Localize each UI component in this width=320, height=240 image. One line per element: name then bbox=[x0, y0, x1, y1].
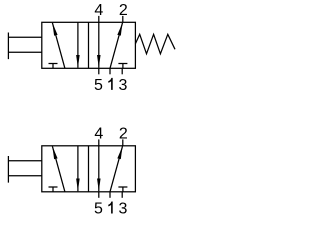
valve V1 port 5 stub bbox=[98, 68, 100, 74]
valve V2 plunger actuator bbox=[8, 156, 41, 183]
valve V1 port 3 stub bbox=[121, 68, 123, 74]
svg-text:3: 3 bbox=[119, 77, 128, 94]
valve V2 port 3 stub bbox=[121, 192, 123, 198]
valve V2 port 5 stub bbox=[98, 192, 100, 198]
valve V1 right-position blocked port 3 T-symbol bbox=[118, 64, 127, 69]
valve V1 left-position arrow 1 to 4 bbox=[52, 23, 65, 69]
valve V1 port 1 stub bbox=[109, 68, 111, 74]
valve V2 port 1 label bbox=[108, 202, 112, 214]
valve V2 right-position arrow 4 to 5 bbox=[98, 146, 100, 192]
svg-text:2: 2 bbox=[119, 125, 128, 142]
svg-text:4: 4 bbox=[94, 2, 103, 19]
valve V2 position divider bbox=[88, 146, 90, 192]
valve V1 port 2 stub bbox=[122, 16, 124, 22]
valve V1 body frame bbox=[42, 22, 136, 68]
valve V2 port 2 stub bbox=[122, 139, 124, 145]
valve V1 (5/2-way, top) bbox=[8, 16, 175, 74]
valve V1 plunger actuator bbox=[8, 33, 41, 60]
valve V2 left-position arrow 1 to 4 bbox=[52, 146, 65, 192]
valve V1 port 1 label bbox=[108, 78, 112, 90]
valve V1 position divider bbox=[88, 22, 90, 68]
valve V2 body frame bbox=[42, 146, 136, 192]
valve V1 left-position arrow 2 to 3 bbox=[77, 22, 79, 68]
valve V1 return spring bbox=[135, 34, 175, 54]
valve V2 left-position arrow 2 to 3 bbox=[77, 146, 79, 192]
svg-text:3: 3 bbox=[119, 201, 128, 215]
valve V2 right-position blocked port 3 T-symbol bbox=[118, 187, 127, 192]
valve V2 port 1 stub bbox=[109, 192, 111, 198]
valve V1 left-position blocked port 5 T-symbol bbox=[49, 64, 58, 69]
svg-text:5: 5 bbox=[94, 201, 103, 215]
svg-text:4: 4 bbox=[94, 125, 103, 142]
valve V1 right-position arrow 4 to 5 bbox=[98, 22, 100, 68]
valve V2 right-position arrow 1 to 2 bbox=[110, 146, 123, 192]
svg-text:5: 5 bbox=[94, 77, 103, 94]
valve V1 right-position arrow 1 to 2 bbox=[110, 23, 123, 69]
valve V2 port 4 stub bbox=[98, 139, 100, 145]
valve V2 (5/2-way, bottom) bbox=[8, 139, 135, 197]
svg-text:2: 2 bbox=[119, 2, 128, 19]
valve V2 left-position blocked port 5 T-symbol bbox=[49, 187, 58, 192]
valve V1 port 4 stub bbox=[98, 16, 100, 22]
